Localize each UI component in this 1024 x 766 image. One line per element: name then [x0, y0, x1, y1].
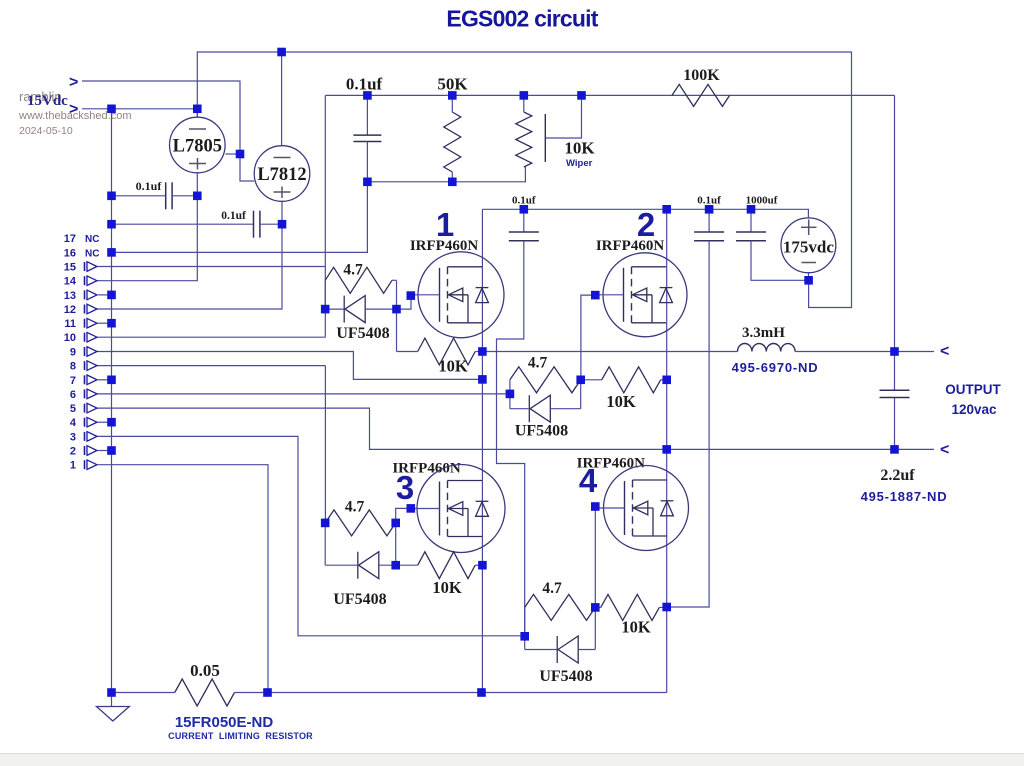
svg-text:1: 1	[70, 460, 76, 472]
wire pin8 row	[97, 365, 325, 367]
junction node (111.5,224.2)	[107, 220, 116, 229]
svg-text:4.7: 4.7	[345, 499, 365, 516]
resistor 10K R4	[581, 379, 602, 381]
junction node (282,224.2)	[278, 220, 287, 229]
svg-text:13: 13	[64, 290, 76, 302]
svg-text:495-1887-ND: 495-1887-ND	[861, 489, 948, 504]
capacitor 0.1uf C5	[708, 209, 710, 232]
svg-text:UF5408: UF5408	[336, 325, 389, 342]
svg-text:15: 15	[64, 262, 76, 274]
wire node B column	[666, 209, 668, 692]
svg-text:>: >	[69, 101, 78, 118]
junction node (666.7,607)	[662, 603, 671, 612]
wiper bar	[544, 114, 546, 162]
svg-text:IRFP460N: IRFP460N	[410, 238, 478, 254]
resistor 10K R6	[396, 564, 418, 566]
wire node A to inductor	[482, 351, 737, 353]
regulator L7812	[254, 146, 310, 202]
wire Q2 gate column	[581, 295, 595, 380]
junction node (666.7,209.3)	[662, 205, 671, 214]
junction node (197.3,195.8)	[193, 192, 202, 201]
svg-text:12: 12	[64, 304, 76, 316]
svg-text:2024-05-10: 2024-05-10	[19, 125, 73, 137]
junction node (482.4,379.4)	[478, 375, 487, 384]
svg-text:14: 14	[64, 276, 77, 288]
wire pin5 row to output bottom	[97, 408, 895, 449]
wire wiper lead	[546, 95, 582, 138]
resistor 10K R2	[396, 309, 398, 351]
junction node (509.9,393.9)	[506, 390, 515, 399]
svg-text:>: >	[69, 74, 78, 91]
junction node (395.7,565.2)	[391, 561, 400, 570]
resistor 50K	[451, 95, 453, 112]
diode UF5408 D1	[325, 308, 343, 310]
junction node (111.5,450.5)	[107, 446, 116, 455]
wire pot bottom row	[367, 167, 525, 182]
svg-text:NC: NC	[85, 248, 99, 259]
resistor 4.7 R3	[509, 380, 511, 394]
wire pin10 row	[97, 336, 325, 338]
svg-text:17: 17	[64, 233, 76, 245]
svg-text:495-6970-ND: 495-6970-ND	[732, 360, 819, 375]
junction node (111.5,379.8)	[107, 376, 116, 385]
wire top bus	[197, 52, 851, 308]
resistor 4.7 R5	[325, 510, 396, 536]
svg-text:OUTPUT: OUTPUT	[945, 382, 1001, 397]
svg-text:9: 9	[70, 347, 76, 359]
junction node (452.3,95.4)	[448, 91, 457, 100]
junction node (111.5,323.2)	[107, 319, 116, 328]
wire node to L7812 input	[240, 154, 254, 181]
svg-text:120vac: 120vac	[951, 402, 997, 417]
resistor 4.7 R1	[324, 280, 326, 309]
junction node (197.3,108.8)	[193, 105, 202, 114]
junction node (396.5,309.1)	[392, 305, 401, 314]
wire gate rail y=95.4	[325, 94, 894, 96]
svg-text:10K: 10K	[438, 357, 468, 376]
junction node (808.6,280.3)	[804, 276, 813, 285]
junction node (523.8,95.4)	[520, 91, 529, 100]
junction node (482.4,351.5)	[478, 347, 487, 356]
svg-text:0.1uf: 0.1uf	[346, 75, 383, 94]
svg-text:50K: 50K	[437, 75, 468, 94]
wire L7812 top lead	[281, 52, 283, 146]
junction node (894.5,449.4)	[890, 445, 899, 454]
svg-text:15FR050E-ND: 15FR050E-ND	[175, 714, 274, 731]
svg-text:0.1uf: 0.1uf	[221, 210, 246, 222]
svg-text:10: 10	[64, 332, 76, 344]
wire rail corner column upper	[324, 95, 326, 337]
source 175vdc	[781, 218, 836, 273]
svg-text:Wiper: Wiper	[566, 158, 593, 169]
junction node (524.7,636.3)	[520, 632, 529, 641]
junction node (894.5,351.5)	[890, 347, 899, 356]
svg-text:6: 6	[70, 389, 76, 401]
svg-text:<: <	[940, 442, 949, 459]
junction node (281.6,52)	[277, 48, 286, 57]
svg-text:1000uf: 1000uf	[746, 195, 778, 207]
wire L7805 top lead	[196, 109, 198, 117]
junction node (111.5,108.8)	[107, 105, 116, 114]
junction node (395.7,522.9)	[391, 519, 400, 528]
pin 15 row wire	[97, 266, 325, 268]
svg-text:3.3mH: 3.3mH	[742, 325, 785, 341]
wire pin6 row to M2 gate block	[97, 393, 510, 395]
svg-text:4: 4	[70, 417, 77, 429]
svg-text:175vdc: 175vdc	[783, 238, 834, 257]
svg-text:L7812: L7812	[257, 165, 306, 185]
junction node (111.5,692.5)	[107, 688, 116, 697]
junction node (666.7,449.4)	[662, 445, 671, 454]
junction node (367.4,181.8)	[363, 178, 372, 187]
junction node (751,209.3)	[747, 205, 756, 214]
junction node (325.2,522.9)	[321, 519, 330, 528]
svg-text:11: 11	[64, 318, 76, 330]
junction node (267.5,692.5)	[263, 688, 272, 697]
wire ground row	[112, 692, 175, 694]
regulator L7805	[170, 117, 226, 173]
transistor Q3 IRFP460N	[411, 465, 505, 553]
junction node (709.1,209.3)	[705, 205, 714, 214]
transistor Q2 IRFP460N	[597, 253, 687, 337]
junction node (481.5,692.5)	[477, 688, 486, 697]
transistor Q4 IRFP460N	[598, 466, 689, 551]
junction node (595.3,506.5)	[591, 502, 600, 511]
svg-text:10K: 10K	[432, 578, 462, 597]
wire output bottom stub	[895, 448, 935, 450]
wire HV bus	[482, 209, 808, 218]
svg-text:0.1uf: 0.1uf	[697, 195, 721, 207]
junction node (325.2,309.1)	[321, 305, 330, 314]
junction node (410.8,295.6)	[407, 291, 416, 300]
wire pin9 row to node A	[97, 352, 482, 380]
svg-text:L7805: L7805	[173, 137, 222, 157]
capacitor 2.2uf C7	[880, 389, 910, 391]
svg-text:UF5408: UF5408	[539, 668, 592, 685]
svg-text:EGS002 circuit: EGS002 circuit	[446, 6, 598, 32]
transistor Q1 IRFP460N	[412, 252, 504, 338]
svg-text:IRFP460N: IRFP460N	[577, 456, 645, 472]
capacitor 0.1uf C4 bootstrap	[523, 209, 525, 232]
wire pin8 column to M3 gate block	[324, 366, 326, 523]
junction node (482.4,565.2)	[478, 561, 487, 570]
svg-text:7: 7	[70, 375, 76, 387]
junction node (111.5,195.8)	[107, 192, 116, 201]
junction node (111.5,252.4)	[107, 248, 116, 257]
resistor 100K	[672, 84, 730, 106]
wire output top stub	[895, 351, 935, 353]
capacitor 0.1uf C2 left	[112, 195, 166, 197]
wire Q3 gate	[396, 508, 411, 523]
junction node (666.7,379.8)	[662, 376, 671, 385]
junction node (240,154)	[236, 150, 245, 159]
junction node (410.8,508.4)	[407, 504, 416, 513]
wire input2 row	[82, 108, 197, 110]
svg-text:3: 3	[70, 431, 76, 443]
wire right feedback column x=894.5	[894, 95, 896, 390]
capacitor 1000uf C6	[750, 209, 752, 232]
svg-text:2.2uf: 2.2uf	[880, 467, 915, 484]
junction node (367.4,95.4)	[363, 91, 372, 100]
capacitor 0.1uf C3	[112, 223, 254, 225]
wire input1 to regulators	[82, 81, 240, 154]
bottom scrollbar strip	[0, 754, 1024, 766]
pin 1 row wire to shunt	[97, 465, 268, 693]
svg-text:CURRENT LIMITING RESISTOR: CURRENT LIMITING RESISTOR	[168, 731, 313, 741]
svg-text:100K: 100K	[683, 67, 720, 84]
svg-text:5: 5	[70, 403, 76, 415]
svg-text:16: 16	[64, 247, 76, 259]
svg-text:4.7: 4.7	[343, 262, 363, 279]
wire left ground column	[111, 109, 113, 693]
capacitor 0.1uf C1	[366, 95, 368, 135]
svg-text:UF5408: UF5408	[333, 591, 386, 608]
svg-text:<: <	[940, 343, 949, 360]
wire L7805 output to node	[226, 153, 241, 155]
diode UF5408 D4	[524, 636, 526, 649]
junction node (523.8,209.3)	[520, 205, 529, 214]
junction node (595.3,607.4)	[591, 603, 600, 612]
svg-text:0.1uf: 0.1uf	[136, 179, 163, 193]
svg-text:2: 2	[70, 446, 76, 458]
junction node (111.5,294.9)	[107, 291, 116, 300]
resistor 10K R8	[595, 606, 600, 608]
svg-text:10K: 10K	[564, 139, 595, 158]
junction node (581.5,95.4)	[577, 91, 586, 100]
svg-text:15Vdc: 15Vdc	[27, 93, 68, 109]
svg-text:0.1uf: 0.1uf	[512, 195, 536, 207]
svg-text:8: 8	[70, 361, 76, 373]
svg-text:IRFP460N: IRFP460N	[596, 238, 664, 254]
svg-text:10K: 10K	[621, 618, 651, 637]
wire L7805 bottom column to pin14	[97, 173, 197, 281]
wire pin3 row to M4 gate block	[97, 436, 525, 635]
svg-text:0.05: 0.05	[190, 661, 220, 680]
wire node A column	[481, 209, 483, 692]
junction node (580.7,379.8)	[576, 376, 585, 385]
ground symbol	[111, 693, 113, 707]
svg-text:NC: NC	[85, 234, 99, 245]
resistor 4.7 R7	[524, 607, 526, 636]
resistor 0.05 shunt	[175, 679, 235, 706]
diode UF5408 D2	[509, 394, 511, 409]
svg-text:4.7: 4.7	[528, 355, 548, 372]
wire Q4 gate column	[594, 507, 596, 608]
wire pin16 row to 50K bottom	[112, 182, 368, 253]
potentiometer 10K	[523, 95, 525, 112]
diode UF5408 D3	[324, 523, 326, 565]
wire Q1 gate	[397, 296, 412, 310]
inductor 3.3mH L1	[738, 344, 796, 352]
junction node (452.3,181.8)	[448, 178, 457, 187]
wire L7812 bottom column to pin12	[97, 201, 282, 309]
svg-text:UF5408: UF5408	[515, 423, 568, 440]
svg-text:4.7: 4.7	[542, 580, 562, 597]
svg-text:IRFP460N: IRFP460N	[392, 461, 460, 477]
junction node (111.5,422.2)	[107, 418, 116, 427]
junction node (595.3,295.1)	[591, 291, 600, 300]
svg-text:10K: 10K	[606, 392, 636, 411]
